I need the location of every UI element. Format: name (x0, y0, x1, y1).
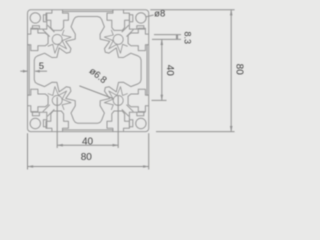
T-slot left y=39 (28, 28, 48, 50)
corner block bottom-right with hole (122, 105, 146, 129)
extension line 40 bottom right (152, 99, 167, 101)
svg-text:80: 80 (81, 152, 93, 163)
T-slot right y=39 (128, 28, 148, 50)
central cavity outline (34, 17, 141, 124)
wall 5 dim outside arrow (20, 70, 27, 72)
extension line bottom right (156, 131, 235, 133)
extension line bottom 80 right (148, 133, 150, 169)
svg-text:40: 40 (82, 136, 94, 147)
T-slot right y=100 (128, 89, 148, 111)
T-slot left y=100 (28, 89, 48, 111)
svg-text:5: 5 (39, 61, 44, 72)
wall 5 dim inside arrow (35, 70, 47, 72)
boss hole 6.8 at 118,39 (104, 30, 127, 53)
profile outer boundary (28, 10, 149, 132)
boss hole 6.8 at 57,39 (48, 30, 71, 53)
T-slot top x=118 (107, 10, 129, 30)
svg-text:ø8: ø8 (154, 8, 165, 19)
boss hole 6.8 at 118,100 (104, 87, 127, 110)
corner block top-left with hole (30, 13, 54, 37)
top edge lip line (62, 10, 112, 11)
dim line 8.3 (176, 35, 178, 40)
extension line 8.3 top (154, 34, 181, 36)
T-slot top x=57 (46, 10, 68, 30)
extension line bottom 40 right (117, 96, 119, 148)
bottom edge lip line (62, 130, 112, 131)
svg-text:80: 80 (233, 64, 244, 76)
dim line 80 vertical right (230, 10, 232, 132)
extension line bottom 40 left (56, 97, 58, 148)
dim line 40 vertical right (161, 39, 163, 100)
boss hole 6.8 at 57,100 (48, 87, 71, 110)
leader line for 6.8 hole (79, 86, 113, 99)
corner block top-right with hole (122, 13, 146, 37)
dim line bottom 80 (28, 166, 149, 168)
right edge lip line (147, 45, 148, 95)
T-slot bottom x=118 (107, 111, 129, 131)
svg-text:8.3: 8.3 (183, 32, 193, 45)
extension line top right (150, 9, 234, 11)
T-slot bottom x=57 (46, 111, 68, 131)
left edge lip line (28, 45, 29, 95)
corner block bottom-left with hole (30, 105, 54, 129)
dim line bottom 40 (57, 144, 118, 146)
extension line bottom 80 left (27, 133, 29, 169)
extension line 8.3 bottom / 40 top (152, 38, 181, 40)
svg-text:40: 40 (164, 65, 175, 77)
leader line for corner hole o8 (146, 15, 154, 17)
